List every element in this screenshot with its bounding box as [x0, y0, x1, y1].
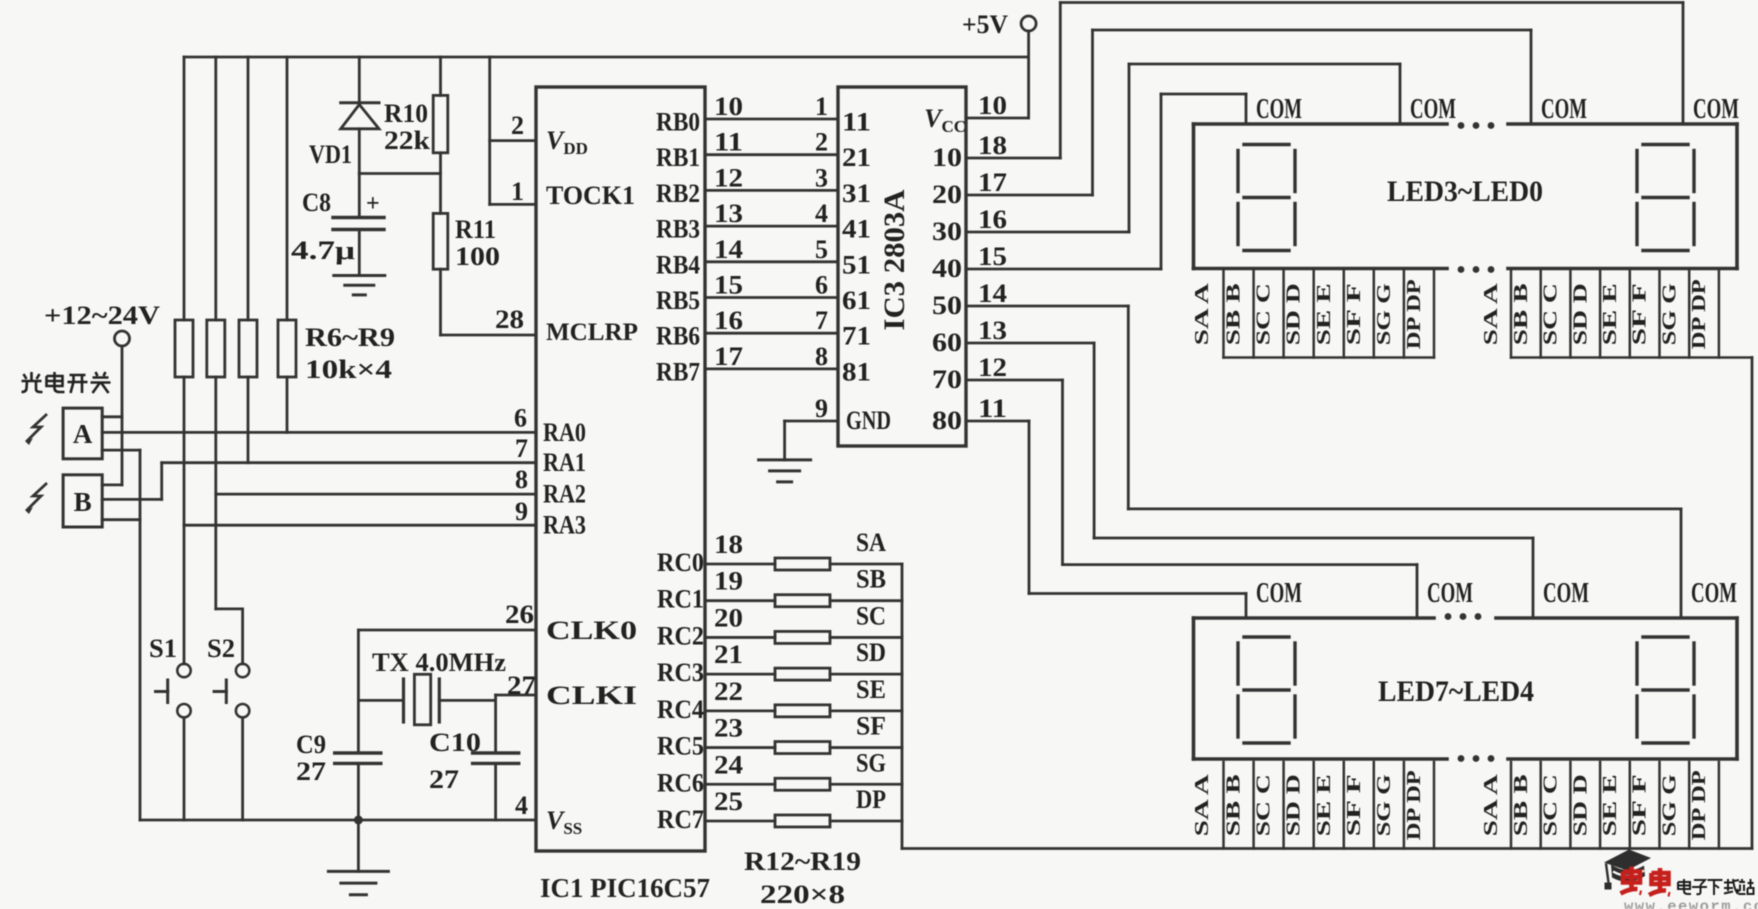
svg-text:GND: GND [846, 406, 891, 435]
photo switch B box [63, 475, 162, 527]
svg-text:10: 10 [714, 92, 743, 121]
IC3 2803A driver body [838, 87, 966, 446]
photo switch A box [63, 408, 140, 459]
wire IC3 GND pin 9 to ground [759, 421, 838, 482]
ellipsis top display1 [1458, 122, 1495, 129]
svg-text:R10: R10 [384, 99, 428, 128]
svg-text:11: 11 [714, 128, 743, 157]
svg-text:12: 12 [714, 163, 743, 192]
pushbutton S1 [149, 634, 191, 820]
wire RB5 to driver input 6 [705, 271, 838, 300]
svg-text:SE: SE [856, 675, 886, 704]
svg-text:RA1: RA1 [543, 448, 586, 477]
svg-text:SE E: SE E [1313, 774, 1335, 836]
wire driver out 60 to LED7~LED4 COM3 [966, 343, 1533, 618]
+12~24V supply terminal [44, 301, 160, 485]
svg-text:SF F: SF F [1343, 283, 1365, 345]
svg-text:31: 31 [842, 179, 871, 208]
wire RB3 to driver input 4 [705, 199, 838, 228]
svg-text:RB3: RB3 [656, 215, 700, 244]
IC1 pin name RB2 [656, 179, 700, 208]
svg-text:SB B: SB B [1223, 774, 1245, 836]
IC3 output label 30 [932, 205, 1007, 246]
svg-text:20: 20 [932, 180, 962, 209]
main ground symbol [328, 820, 388, 895]
IC3 input label 21 [842, 143, 871, 172]
svg-text:R12~R19: R12~R19 [744, 847, 861, 876]
svg-text:COM: COM [1691, 577, 1737, 609]
svg-text:11: 11 [842, 108, 871, 137]
wire RB6 to driver input 7 [705, 306, 838, 335]
svg-text:R11: R11 [455, 215, 496, 244]
IC1 pin name RA3 [543, 511, 586, 540]
IC1 pin name RC6 [657, 768, 704, 797]
svg-text:15: 15 [714, 271, 743, 300]
svg-text:SE E: SE E [1599, 283, 1621, 345]
svg-text:9: 9 [515, 497, 528, 526]
svg-text:7: 7 [815, 306, 828, 335]
wire CLK0 pin 26 [358, 600, 536, 753]
svg-text:SA A: SA A [1191, 282, 1213, 345]
resistor R15 220 on RC3 (SD) [705, 638, 902, 680]
wire RB7 to driver input 8 [705, 342, 838, 371]
svg-text:COM: COM [1410, 93, 1456, 125]
svg-text:SG G: SG G [1658, 774, 1680, 837]
svg-text:28: 28 [495, 305, 524, 334]
svg-text:18: 18 [714, 530, 743, 559]
svg-text:14: 14 [714, 235, 743, 264]
IC3 input label 51 [842, 250, 871, 279]
display block LED3~LED0 [1194, 124, 1738, 269]
svg-text:60: 60 [932, 328, 962, 357]
wire VDD/TOCK1 feed column [490, 57, 536, 206]
svg-text:21: 21 [842, 143, 871, 172]
wire RB2 to driver input 3 [705, 163, 838, 192]
svg-text:SB: SB [856, 565, 886, 594]
IC3 input label 41 [842, 215, 871, 244]
svg-text:S1: S1 [149, 634, 177, 663]
svg-text:LED7~LED4: LED7~LED4 [1378, 675, 1534, 708]
IC1 pin name RC1 [657, 585, 704, 614]
svg-text:SD D: SD D [1283, 774, 1305, 836]
svg-text:SF: SF [856, 712, 886, 741]
wire driver out 40 to LED3~LED0 COM1 [966, 94, 1246, 269]
segment bus vertical [901, 564, 904, 849]
svg-text:27: 27 [429, 765, 459, 794]
svg-text:9: 9 [815, 394, 828, 423]
svg-text:C9: C9 [296, 730, 326, 759]
IC1 pin name RB7 [656, 357, 700, 386]
IC1 pin name RB0 [656, 108, 700, 137]
svg-text:6: 6 [815, 271, 828, 300]
wire RB4 to driver input 5 [705, 235, 838, 264]
svg-text:DP DP: DP DP [1688, 279, 1710, 349]
7-segment digit right (LED0) [1637, 145, 1694, 251]
IC1 pin name RA2 [543, 480, 586, 509]
svg-text:RC7: RC7 [657, 805, 704, 834]
svg-text:SG G: SG G [1373, 774, 1395, 837]
display2 segment pin group 2 [1480, 762, 1719, 849]
svg-text:CLKI: CLKI [546, 681, 637, 710]
watermark site name characters [1678, 879, 1754, 895]
svg-text:SF F: SF F [1343, 774, 1365, 836]
svg-text:SD: SD [856, 638, 886, 667]
IC3 output label 70 [932, 353, 1007, 394]
svg-text:SA A: SA A [1191, 773, 1213, 836]
svg-text:27: 27 [507, 671, 536, 700]
watermark url [1624, 898, 1758, 909]
ellipsis top display2 [1445, 613, 1482, 620]
svg-text:+5V: +5V [962, 10, 1008, 39]
IC3 label rotated [878, 189, 911, 330]
svg-text:12: 12 [978, 353, 1007, 382]
svg-text:2: 2 [815, 128, 828, 157]
svg-text:A: A [73, 419, 93, 449]
svg-text:20: 20 [714, 603, 743, 632]
svg-text:21: 21 [714, 640, 743, 669]
svg-text:S2: S2 [207, 634, 235, 663]
svg-text:22: 22 [714, 677, 743, 706]
label COM4 display1 [1693, 93, 1739, 125]
svg-text:51: 51 [842, 250, 871, 279]
svg-text:TOCK1: TOCK1 [546, 181, 635, 210]
label COM3 display1 [1541, 93, 1587, 125]
svg-text:SD D: SD D [1569, 774, 1591, 836]
svg-text:7: 7 [515, 434, 528, 463]
7-segment digit right (LED4) [1637, 637, 1694, 743]
IC1 pin name RC3 [657, 658, 704, 687]
svg-text:RA3: RA3 [543, 511, 586, 540]
IC3 output label 60 [932, 316, 1007, 357]
wire driver out 10 to LED3~LED0 COM4 [966, 3, 1683, 159]
ellipsis bottom display1 [1458, 266, 1495, 273]
IC3 output label 50 [932, 279, 1007, 320]
svg-text:SC C: SC C [1253, 283, 1275, 345]
IC1 pin name RB1 [656, 143, 700, 172]
resistor R11 100 [433, 174, 500, 336]
segment bus bottom [902, 847, 1752, 850]
IC3 input label 81 [842, 357, 871, 386]
svg-text:61: 61 [842, 286, 871, 315]
svg-text:SB B: SB B [1510, 774, 1532, 836]
capacitor C9 27p [296, 730, 381, 820]
svg-text:30: 30 [932, 217, 962, 246]
svg-text:RC2: RC2 [657, 621, 704, 650]
wire driver out 30 to LED3~LED0 COM2 [966, 64, 1400, 232]
svg-text:DP DP: DP DP [1403, 770, 1425, 840]
svg-text:RC0: RC0 [657, 548, 704, 577]
label COM3 display2 [1543, 577, 1589, 609]
IC3 output label 80 [932, 394, 1007, 435]
wire driver out 20 to LED3~LED0 COM3 [966, 30, 1531, 195]
svg-text:8: 8 [515, 465, 528, 494]
wire RB1 to driver input 2 [705, 128, 838, 157]
svg-text:1: 1 [511, 177, 524, 206]
svg-text:TX 4.0MHz: TX 4.0MHz [372, 648, 506, 677]
IC3 pin name VCC [924, 104, 966, 136]
svg-text:COM: COM [1427, 577, 1473, 609]
VSS ground bus wire pin 4 [140, 791, 536, 820]
svg-text:26: 26 [505, 600, 534, 629]
svg-text:DP: DP [856, 785, 886, 814]
resistor R8 (10k pull-up) [239, 57, 257, 463]
svg-text:www.eeworm.com: www.eeworm.com [1624, 898, 1758, 909]
resistor R18 220 on RC6 (SG) [705, 748, 902, 790]
resistor R6 (10k pull-up) [175, 57, 193, 664]
IC1 pin name RC5 [657, 732, 704, 761]
wire RA3 pin 9 [184, 497, 536, 526]
7-segment digit left (LED3) [1238, 145, 1295, 251]
IC1 pin name RB5 [656, 286, 700, 315]
capacitor C10 27p [429, 728, 519, 820]
svg-text:SD D: SD D [1569, 283, 1591, 345]
wire MCLRP pin 28 [441, 305, 537, 335]
svg-text:SG: SG [856, 748, 886, 777]
resistor R9 (10k pull-up) [278, 57, 296, 432]
svg-text:VD1: VD1 [309, 140, 352, 169]
IC1 pin name RA0 [543, 418, 586, 447]
IC3 input label 61 [842, 286, 871, 315]
svg-text:SE E: SE E [1313, 283, 1335, 345]
IC1 pin name RC4 [657, 695, 704, 724]
resistor R7 (10k pull-up) [207, 57, 243, 664]
resistor R19 220 on RC7 (DP) [705, 785, 902, 827]
svg-text:COM: COM [1541, 93, 1587, 125]
svg-text:SF F: SF F [1629, 283, 1651, 345]
IC1 pin name CLK0 [546, 616, 637, 645]
wire driver out 70 to LED7~LED4 COM2 [966, 380, 1417, 618]
resistor R14 220 on RC2 (SC) [705, 601, 902, 643]
IC1 pin name RB6 [656, 322, 700, 351]
watermark chongchong red characters [1621, 867, 1671, 896]
svg-text:220×8: 220×8 [760, 880, 845, 909]
resistor R12 220 on RC0 (SA) [705, 528, 902, 570]
svg-text:5: 5 [815, 235, 828, 264]
svg-text:19: 19 [714, 567, 743, 596]
svg-text:RB7: RB7 [656, 357, 700, 386]
light arrow into B [26, 483, 47, 514]
svg-text:RC6: RC6 [657, 768, 704, 797]
ellipsis bottom display2 [1458, 755, 1495, 762]
resistor R16 220 on RC4 (SE) [705, 675, 902, 717]
crystal TX 4.0MHz [358, 648, 506, 725]
svg-text:13: 13 [978, 316, 1007, 345]
svg-text:SB B: SB B [1223, 283, 1245, 345]
svg-text:SA: SA [856, 528, 886, 557]
wire B output riser to RA1 [160, 463, 163, 500]
IC1 pin name RB4 [656, 250, 700, 279]
svg-text:50: 50 [932, 291, 962, 320]
svg-text:IC3 2803A: IC3 2803A [878, 189, 911, 330]
wire RB0 to driver input 1 [705, 92, 838, 121]
svg-text:4: 4 [815, 199, 828, 228]
wire VD1/C8 node to R10/R11 node [359, 174, 440, 218]
svg-text:DP DP: DP DP [1688, 770, 1710, 840]
IC3 input label 31 [842, 179, 871, 208]
IC1 PIC16C57 microcontroller body [536, 87, 705, 851]
IC3 pin name GND [846, 406, 891, 435]
svg-text:DP DP: DP DP [1403, 279, 1425, 349]
IC3 pin number 9 (GND) [815, 394, 828, 423]
svg-text:SF F: SF F [1629, 774, 1651, 836]
label COM1 display1 [1256, 93, 1302, 125]
svg-text:23: 23 [714, 714, 743, 743]
svg-text:SC C: SC C [1253, 774, 1275, 836]
svg-text:40: 40 [932, 254, 962, 283]
label R12~R19 220x8 [744, 847, 861, 909]
light arrow into A [26, 414, 47, 445]
svg-text:17: 17 [714, 342, 743, 371]
wire RA0 pin 6 [102, 404, 536, 433]
IC3 input label 71 [842, 322, 871, 351]
svg-text:10: 10 [932, 143, 962, 172]
label COM2 display1 [1410, 93, 1456, 125]
svg-text:RB0: RB0 [656, 108, 700, 137]
svg-text:RB1: RB1 [656, 143, 700, 172]
svg-text:+12~24V: +12~24V [44, 301, 160, 330]
svg-text:C8: C8 [302, 188, 331, 217]
IC1 pin name RC0 [657, 548, 704, 577]
svg-text:14: 14 [978, 279, 1007, 308]
IC1 pin name VSS [546, 806, 582, 838]
resistor R10 22k [384, 57, 448, 174]
IC3 output label 20 [932, 168, 1007, 209]
svg-text:SC C: SC C [1540, 774, 1562, 836]
svg-text:SA A: SA A [1480, 773, 1502, 836]
wire driver out 50 to LED7~LED4 COM4 [966, 306, 1681, 618]
svg-text:22k: 22k [384, 126, 431, 155]
svg-text:RB5: RB5 [656, 286, 700, 315]
svg-text:RA2: RA2 [543, 480, 586, 509]
wire VCC pin 10 to +5V [966, 117, 1029, 120]
svg-text:IC1 PIC16C57: IC1 PIC16C57 [540, 873, 710, 903]
svg-text:17: 17 [978, 168, 1007, 197]
IC1 pin name RC2 [657, 621, 704, 650]
resistor R17 220 on RC5 (SF) [705, 712, 902, 754]
label photoelectric switch (Chinese) [22, 372, 111, 393]
watermark graduation cap logo [1604, 850, 1651, 890]
svg-text:80: 80 [932, 406, 962, 435]
wire driver out 80 to LED7~LED4 COM1 [966, 421, 1246, 618]
svg-text:11: 11 [978, 394, 1007, 423]
top power rail (+5V feed to pull-ups and VDD) [184, 56, 1029, 59]
ground below C8 [334, 276, 385, 295]
svg-text:16: 16 [714, 306, 743, 335]
display block LED7~LED4 [1194, 618, 1738, 759]
svg-text:COM: COM [1256, 93, 1302, 125]
IC3 output label 40 [932, 242, 1007, 283]
svg-text:6: 6 [514, 404, 527, 433]
svg-text:+: + [366, 191, 380, 217]
IC3 pin number 10 (VCC) [978, 91, 1007, 120]
svg-text:4: 4 [515, 791, 528, 820]
resistor R13 220 on RC1 (SB) [705, 565, 902, 607]
IC1 pin name VDD [546, 126, 588, 158]
IC1 pin name RA1 [543, 448, 586, 477]
svg-text:3: 3 [815, 163, 828, 192]
svg-text:CLK0: CLK0 [546, 616, 637, 645]
svg-text:81: 81 [842, 357, 871, 386]
svg-text:SA A: SA A [1480, 282, 1502, 345]
svg-text:SG G: SG G [1658, 283, 1680, 346]
svg-text:10: 10 [978, 91, 1007, 120]
svg-text:SE E: SE E [1599, 774, 1621, 836]
svg-text:SB B: SB B [1510, 283, 1532, 345]
label COM1 display2 [1256, 577, 1302, 609]
svg-text:R6~R9: R6~R9 [305, 323, 395, 352]
svg-text:COM: COM [1543, 577, 1589, 609]
IC3 input label 11 [842, 108, 871, 137]
IC1 pin name RB3 [656, 215, 700, 244]
svg-text:16: 16 [978, 205, 1007, 234]
svg-text:70: 70 [932, 365, 962, 394]
7-segment digit left (LED7) [1238, 637, 1295, 743]
IC1 pin name CLKI [546, 681, 637, 710]
svg-text:8: 8 [815, 342, 828, 371]
svg-text:71: 71 [842, 322, 871, 351]
svg-text:25: 25 [714, 787, 743, 816]
svg-text:10k×4: 10k×4 [305, 355, 392, 384]
svg-text:RC3: RC3 [657, 658, 704, 687]
svg-text:RB2: RB2 [656, 179, 700, 208]
IC3 output label 10 [932, 131, 1007, 172]
junction at crystal ground [354, 816, 363, 825]
svg-text:18: 18 [978, 131, 1007, 160]
svg-text:100: 100 [455, 242, 500, 271]
label R6~R9 10k x4 [305, 323, 395, 384]
+5V supply terminal [962, 10, 1036, 118]
svg-text:B: B [74, 487, 92, 517]
svg-text:MCLRP: MCLRP [546, 319, 638, 346]
IC1 pin name RC7 [657, 805, 704, 834]
wire RA2 pin 8 [216, 465, 536, 494]
svg-text:SG G: SG G [1373, 283, 1395, 346]
svg-text:RB6: RB6 [656, 322, 700, 351]
svg-text:COM: COM [1256, 577, 1302, 609]
display1 segment pin group 2 [1480, 271, 1752, 358]
label COM2 display2 [1427, 577, 1473, 609]
svg-text:41: 41 [842, 215, 871, 244]
label IC1 PIC16C57 [540, 873, 710, 903]
svg-text:2: 2 [511, 111, 524, 140]
segment bus right riser [1751, 358, 1754, 849]
svg-text:RA0: RA0 [543, 418, 586, 447]
capacitor C8 4.7u electrolytic [291, 188, 384, 276]
svg-text:SC: SC [856, 601, 886, 630]
wire RA1 pin 7 [162, 434, 536, 463]
svg-text:RB4: RB4 [656, 250, 700, 279]
pushbutton S2 [207, 634, 249, 820]
svg-text:1: 1 [815, 92, 828, 121]
svg-text:SC C: SC C [1540, 283, 1562, 345]
svg-text:RC4: RC4 [657, 695, 704, 724]
svg-text:RC5: RC5 [657, 732, 704, 761]
display1 segment pin group 1 [1191, 271, 1434, 358]
svg-text:RC1: RC1 [657, 585, 704, 614]
wire CLKI pin 27 [496, 671, 536, 753]
svg-text:24: 24 [714, 750, 743, 779]
svg-text:LED3~LED0: LED3~LED0 [1387, 175, 1543, 208]
IC1 pin name TOCK1 [546, 181, 635, 210]
wire A/B common to ground bus [139, 450, 142, 820]
svg-text:4.7μ: 4.7μ [291, 236, 355, 265]
svg-text:13: 13 [714, 199, 743, 228]
svg-text:27: 27 [296, 757, 326, 786]
svg-text:15: 15 [978, 242, 1007, 271]
IC1 pin name MCLRP [546, 319, 638, 346]
label COM4 display2 [1691, 577, 1737, 609]
diode VD1 [309, 57, 379, 174]
